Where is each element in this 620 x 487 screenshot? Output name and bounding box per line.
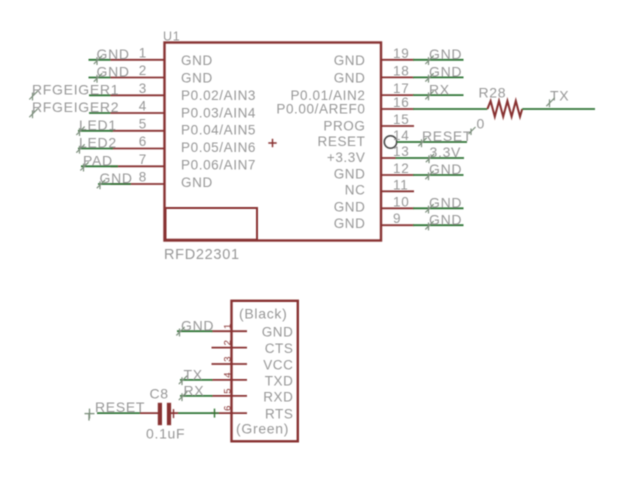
svg-text:RX: RX [184, 382, 205, 398]
svg-text:TX: TX [184, 366, 203, 382]
svg-text:GND: GND [334, 200, 366, 215]
svg-text:7: 7 [139, 152, 147, 167]
svg-text:2: 2 [139, 63, 147, 78]
svg-text:P0.05/AIN6: P0.05/AIN6 [181, 140, 256, 155]
svg-text:0: 0 [477, 116, 486, 132]
svg-text:TXD: TXD [265, 373, 294, 388]
svg-text:1: 1 [139, 45, 147, 60]
svg-text:GND: GND [429, 64, 462, 80]
svg-text:10: 10 [393, 194, 409, 209]
svg-text:GND: GND [181, 175, 213, 190]
svg-text:P0.00/AREF0: P0.00/AREF0 [276, 102, 365, 117]
svg-text:PROG: PROG [323, 118, 365, 133]
svg-text:(Green): (Green) [236, 421, 289, 437]
svg-text:RFGEIGER2: RFGEIGER2 [32, 99, 119, 115]
svg-text:RTS: RTS [265, 407, 294, 422]
svg-text:11: 11 [393, 177, 408, 192]
svg-text:TX: TX [550, 88, 569, 104]
svg-text:GND: GND [181, 70, 213, 85]
svg-text:P0.03/AIN4: P0.03/AIN4 [181, 105, 256, 120]
svg-text:4: 4 [222, 372, 233, 377]
svg-text:18: 18 [393, 63, 409, 78]
svg-text:1: 1 [222, 324, 233, 329]
svg-text:GND: GND [181, 318, 214, 334]
svg-text:RESET: RESET [317, 134, 365, 149]
svg-text:0.1uF: 0.1uF [146, 425, 185, 441]
svg-text:GND: GND [429, 211, 462, 227]
svg-text:RFGEIGER1: RFGEIGER1 [32, 82, 119, 98]
svg-text:GND: GND [334, 53, 366, 68]
svg-text:GND: GND [262, 325, 294, 340]
svg-text:RX: RX [429, 81, 450, 97]
svg-text:GND: GND [334, 216, 366, 231]
svg-text:GND: GND [97, 46, 130, 62]
svg-text:GND: GND [334, 167, 366, 182]
svg-text:GND: GND [100, 170, 133, 186]
svg-text:13: 13 [393, 144, 409, 159]
svg-text:C8: C8 [150, 385, 169, 401]
svg-text:3: 3 [139, 81, 147, 96]
svg-text:R28: R28 [479, 85, 507, 101]
svg-text:3.3V: 3.3V [430, 144, 462, 160]
svg-text:3: 3 [222, 357, 233, 362]
svg-text:RESET: RESET [95, 399, 145, 415]
svg-text:5: 5 [139, 116, 147, 131]
svg-text:17: 17 [393, 81, 409, 96]
svg-text:5: 5 [222, 388, 233, 393]
svg-text:CTS: CTS [265, 341, 294, 356]
svg-text:RESET: RESET [422, 128, 472, 144]
svg-text:VCC: VCC [263, 358, 293, 373]
svg-text:15: 15 [393, 112, 409, 127]
svg-text:12: 12 [393, 161, 409, 176]
svg-text:8: 8 [139, 170, 147, 185]
svg-text:2: 2 [222, 340, 233, 345]
svg-text:14: 14 [393, 128, 409, 143]
svg-text:6: 6 [139, 134, 147, 149]
svg-text:RXD: RXD [263, 389, 293, 404]
svg-text:LED2: LED2 [79, 135, 117, 151]
svg-text:GND: GND [429, 195, 462, 211]
svg-text:6: 6 [222, 406, 233, 411]
svg-text:16: 16 [393, 95, 409, 110]
svg-text:+3.3V: +3.3V [327, 150, 366, 165]
svg-text:(Black): (Black) [239, 306, 287, 322]
svg-text:U1: U1 [163, 30, 180, 44]
svg-text:LED1: LED1 [79, 117, 117, 133]
svg-text:GND: GND [429, 46, 462, 62]
svg-text:GND: GND [334, 70, 366, 85]
svg-text:NC: NC [345, 183, 366, 198]
svg-text:GND: GND [181, 53, 213, 68]
svg-text:PAD: PAD [83, 153, 113, 169]
svg-text:P0.06/AIN7: P0.06/AIN7 [181, 158, 256, 173]
svg-text:4: 4 [139, 99, 147, 114]
svg-text:RFD22301: RFD22301 [164, 247, 240, 263]
svg-text:GND: GND [97, 64, 130, 80]
svg-text:P0.02/AIN3: P0.02/AIN3 [181, 88, 256, 103]
svg-text:P0.04/AIN5: P0.04/AIN5 [181, 123, 256, 138]
svg-text:GND: GND [429, 161, 462, 177]
svg-text:9: 9 [393, 211, 401, 226]
svg-text:19: 19 [393, 46, 409, 61]
